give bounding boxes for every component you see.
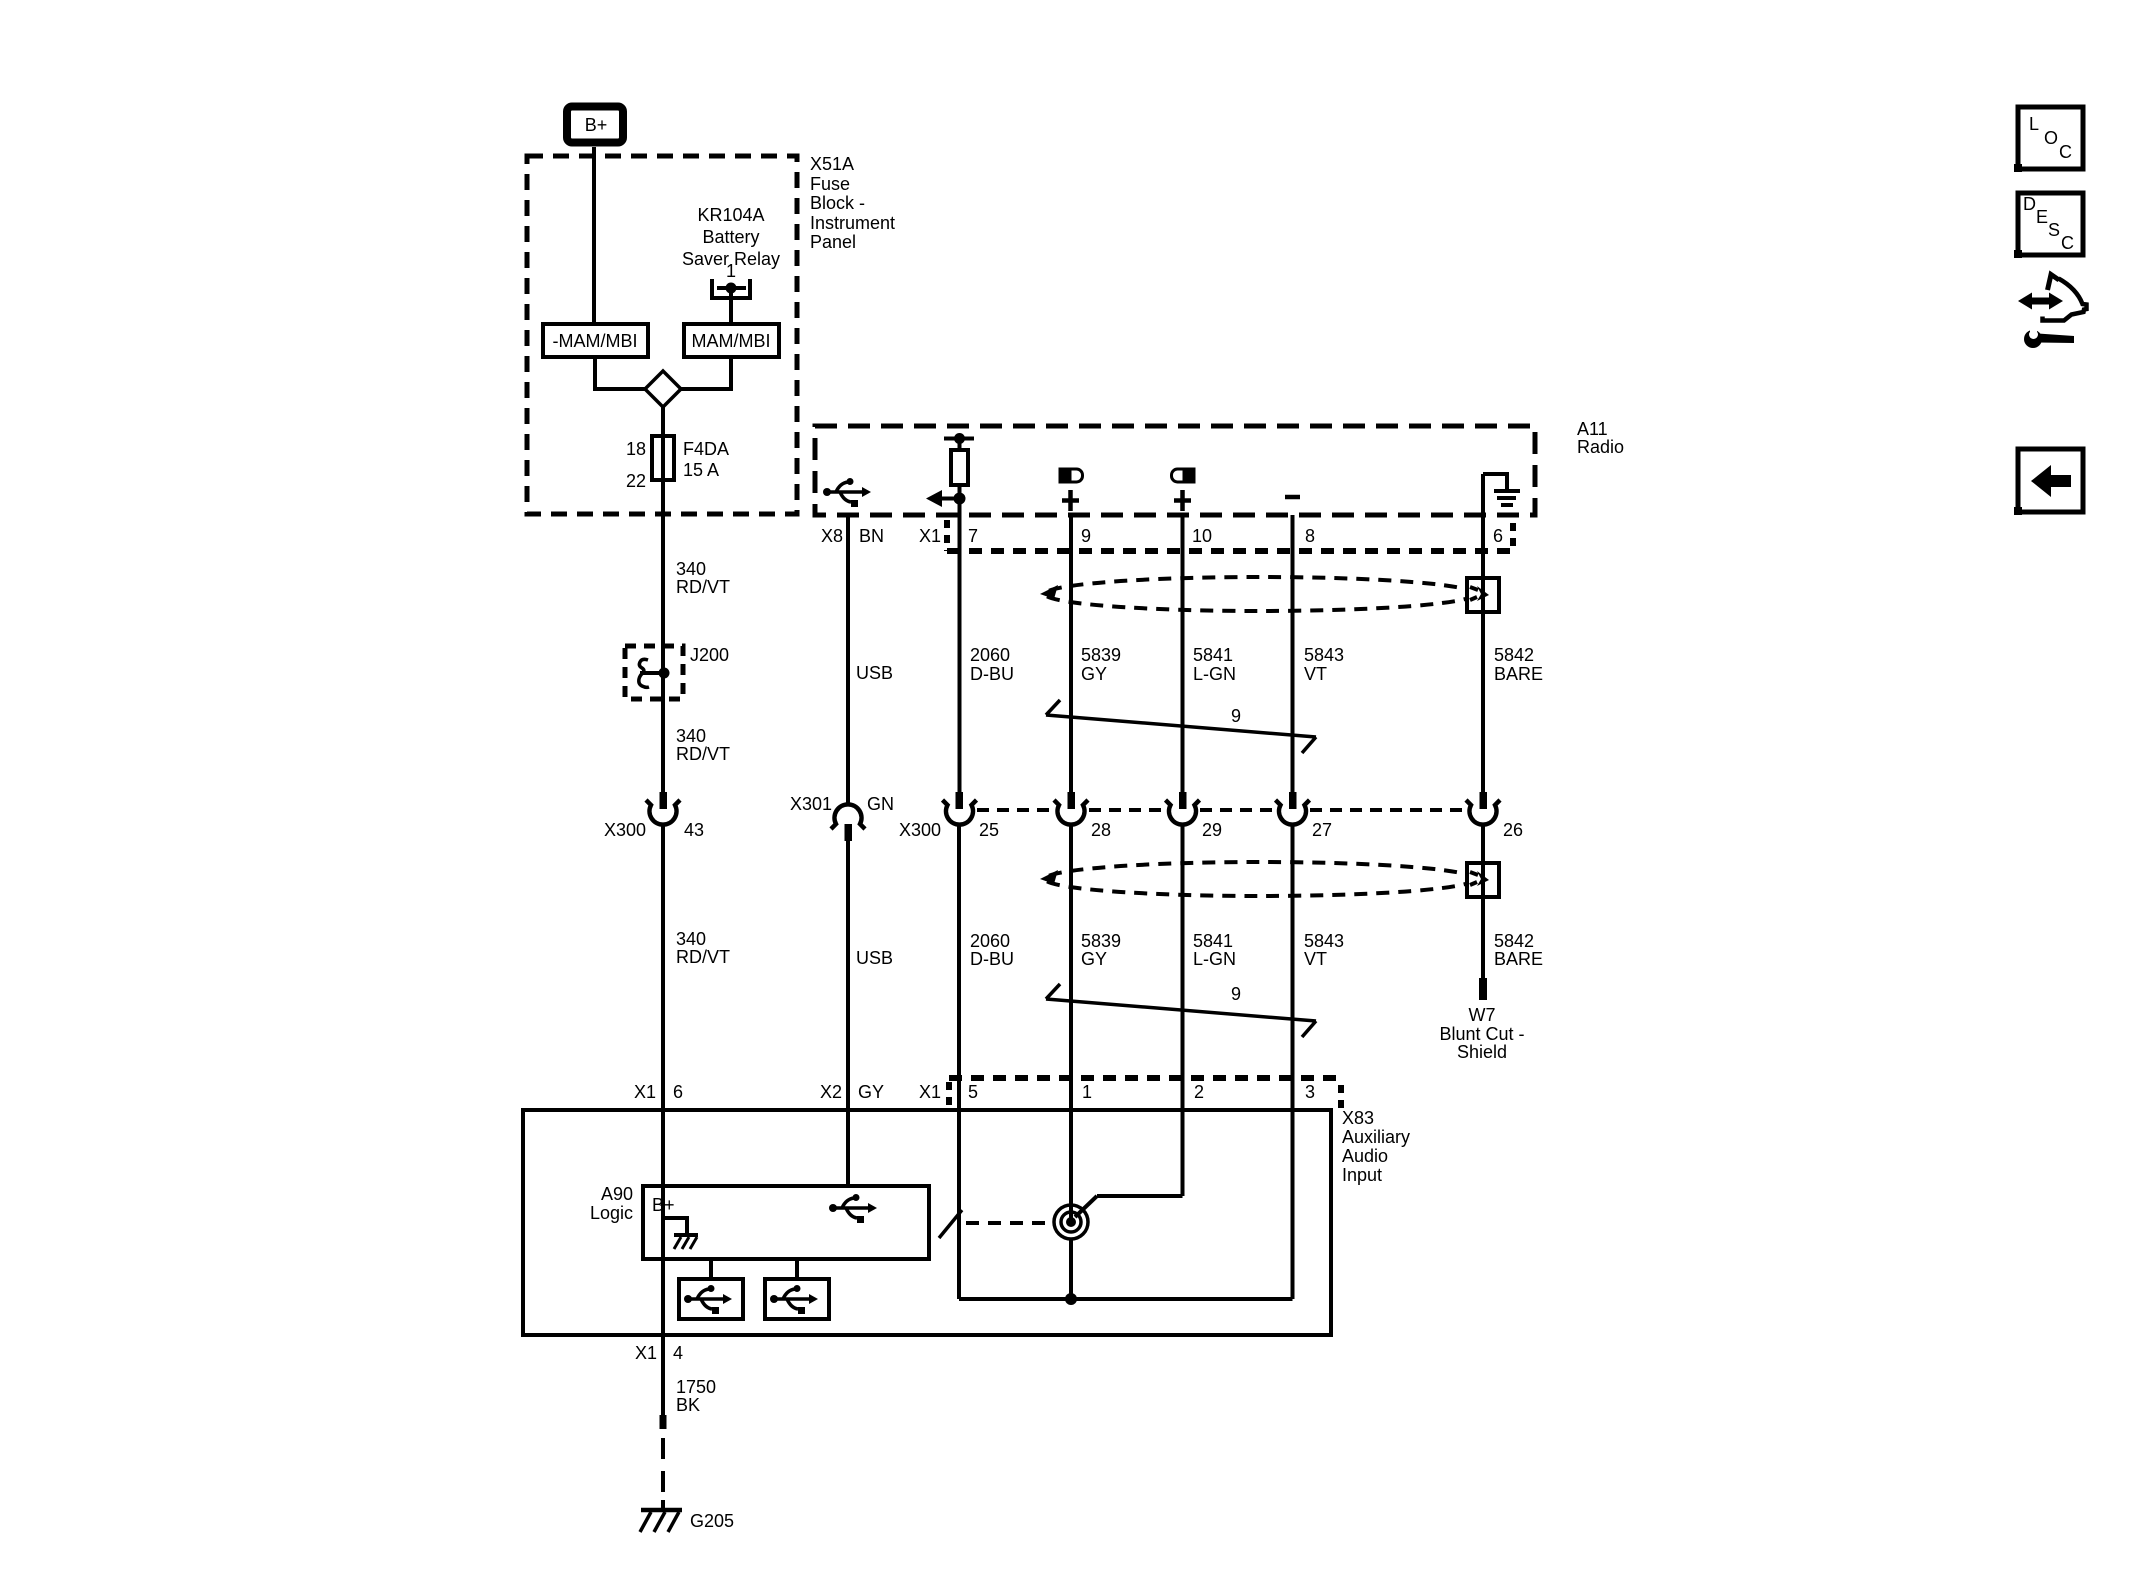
svg-text:GN: GN [867,794,894,814]
svg-text:X1: X1 [634,1082,656,1102]
svg-text:5841: 5841 [1193,645,1233,665]
svg-text:10: 10 [1192,526,1212,546]
svg-text:C: C [2061,233,2074,253]
twisted marker 9 run 1 [1046,700,1060,715]
radio USB symbol [823,478,871,507]
svg-text:X1: X1 [635,1343,657,1363]
USB port 2 box [765,1279,829,1319]
svg-text:Shield: Shield [1457,1042,1507,1062]
svg-text:D-BU: D-BU [970,949,1014,969]
A90 USB symbol [829,1194,877,1223]
svg-text:340: 340 [676,726,706,746]
svg-text:Audio: Audio [1342,1146,1388,1166]
svg-text:2060: 2060 [970,645,1010,665]
svg-text:BK: BK [676,1395,700,1415]
svg-text:A11: A11 [1577,419,1608,439]
svg-text:GY: GY [1081,949,1107,969]
radio pin 7 output arrow [926,490,942,507]
svg-text:BARE: BARE [1494,664,1543,684]
wire B+ down to -MAM/MBI [592,147,596,324]
svg-text:F4DA: F4DA [683,439,729,459]
bottom bus wire [959,1297,1293,1301]
svg-text:Block -: Block - [810,193,865,213]
svg-text:Instrument: Instrument [810,213,895,233]
svg-text:25: 25 [979,820,999,840]
radio X1 connector dotted bracket [944,520,950,551]
svg-text:18: 18 [626,439,646,459]
aux jack: dashed link to jack [966,1221,1053,1225]
X83 box [523,1110,1331,1335]
svg-text:3: 3 [1305,1082,1315,1102]
splice J200 [625,646,683,699]
svg-text:28: 28 [1091,820,1111,840]
radio pin 7 internal: T bar [944,437,974,441]
svg-text:1: 1 [726,261,736,281]
svg-text:Auxiliary: Auxiliary [1342,1127,1410,1147]
wire X301 to X83 [846,841,850,1186]
svg-text:27: 27 [1312,820,1332,840]
radio pin 10 plus [1174,498,1191,503]
svg-text:6: 6 [1493,526,1503,546]
relay KR104A pin 1 contact [712,279,750,298]
ground G205 [641,1508,682,1513]
svg-text:340: 340 [676,559,706,579]
wire A90 to USB port 2 [795,1259,799,1279]
wire 2060 D-BU run 2 [957,825,961,1299]
wire 5843 VT run 2 [1291,825,1295,1299]
svg-text:Blunt Cut -: Blunt Cut - [1439,1024,1524,1044]
svg-text:L: L [2029,114,2039,134]
svg-text:GY: GY [1081,664,1107,684]
svg-text:5843: 5843 [1304,931,1344,951]
svg-text:S: S [2048,220,2060,240]
svg-text:B+: B+ [652,1195,675,1215]
wire radio pin 6 down to X300 [1481,474,1485,792]
svg-text:X1: X1 [919,526,941,546]
svg-text:5843: 5843 [1304,645,1344,665]
terminal box MAM/MBI [684,324,779,357]
svg-text:Radio: Radio [1577,437,1624,457]
A90 internal ground [664,1218,687,1233]
wire X300 to X83 [661,825,665,1110]
inline connector X300 pin 43 [660,792,668,809]
svg-text:L-GN: L-GN [1193,949,1236,969]
svg-text:5842: 5842 [1494,931,1534,951]
svg-text:22: 22 [626,471,646,491]
svg-text:X83: X83 [1342,1108,1374,1128]
USB port 1 box [679,1279,743,1319]
svg-text:X300: X300 [604,820,646,840]
shield termination box run 1 [1467,578,1499,612]
svg-text:VT: VT [1304,949,1327,969]
svg-text:26: 26 [1503,820,1523,840]
svg-text:W7: W7 [1469,1005,1496,1025]
svg-text:5: 5 [968,1082,978,1102]
inline connector X300 pin 26 [1480,792,1488,809]
svg-text:29: 29 [1202,820,1222,840]
svg-text:D-BU: D-BU [970,664,1014,684]
svg-text:1: 1 [1082,1082,1092,1102]
wire 5841 L-GN run 2 [1181,825,1185,1196]
svg-text:6: 6 [673,1082,683,1102]
wire B+ through X83 [661,1110,665,1415]
svg-text:9: 9 [1231,984,1241,1004]
svg-text:E: E [2036,207,2048,227]
wire relay pin1 to MAM/MBI [729,288,733,324]
svg-text:G205: G205 [690,1511,734,1531]
svg-text:Battery: Battery [702,227,759,247]
blunt cut W7 tick [1479,978,1487,1000]
wire radio pin 10 down to X300 [1181,515,1185,792]
radio pin 9 plus [1062,498,1079,503]
svg-text:X8: X8 [821,526,843,546]
svg-text:9: 9 [1231,706,1241,726]
svg-text:USB: USB [856,663,893,683]
svg-text:5839: 5839 [1081,645,1121,665]
svg-text:BARE: BARE [1494,949,1543,969]
svg-text:Fuse: Fuse [810,174,850,194]
svg-text:KR104A: KR104A [697,205,764,225]
svg-text:X301: X301 [790,794,832,814]
svg-text:Logic: Logic [590,1203,633,1223]
power symbol B+ [567,107,623,143]
shield termination box run 2 [1467,863,1499,897]
inline connector X301 (GN) [831,804,865,829]
svg-text:A90: A90 [601,1184,633,1204]
wire MAM/MBI to diamond [681,357,731,389]
svg-text:7: 7 [968,526,978,546]
X83 X1 connector dotted bracket [949,1075,1341,1081]
wire radio pin 8 down to X300 [1291,515,1295,792]
svg-text:O: O [2044,128,2058,148]
svg-text:X51A: X51A [810,154,854,174]
termination tick below X1-4 [660,1415,667,1429]
svg-text:RD/VT: RD/VT [676,577,730,597]
terminal box -MAM/MBI [543,324,648,357]
svg-text:2: 2 [1194,1082,1204,1102]
wire -MAM/MBI to diamond [595,357,645,389]
radio A11 dashed box [815,426,1535,515]
svg-text:-MAM/MBI: -MAM/MBI [553,331,638,351]
svg-text:VT: VT [1304,664,1327,684]
fuse F4DA [652,436,674,480]
radio pin 10 battery icon [1172,469,1195,482]
svg-text:MAM/MBI: MAM/MBI [692,331,771,351]
svg-text:5839: 5839 [1081,931,1121,951]
wire 5842 BARE run 2 [1481,825,1485,978]
svg-text:RD/VT: RD/VT [676,947,730,967]
A90 logic box [643,1186,929,1259]
svg-text:USB: USB [856,948,893,968]
twisted marker 9 run 2 [1046,984,1060,999]
nav icon LOC [2018,107,2083,169]
svg-text:5841: 5841 [1193,931,1233,951]
inline connector X300 pin 25 [956,792,964,809]
wire diamond to fuse block edge [661,407,665,514]
svg-text:2060: 2060 [970,931,1010,951]
shield ellipse run 2 [1045,862,1475,896]
svg-text:8: 8 [1305,526,1315,546]
wire 340 RD/VT fuse to X300 [661,514,665,792]
svg-text:GY: GY [858,1082,884,1102]
wire A90 to USB port 1 [709,1259,713,1279]
radio pin 7 resistor [951,450,968,485]
svg-text:340: 340 [676,929,706,949]
svg-text:5842: 5842 [1494,645,1534,665]
nav icon DESC [2018,193,2083,255]
aux jack: breakout slash on pin 5 wire [939,1210,962,1238]
svg-text:BN: BN [859,526,884,546]
radio pin 9 battery icon [1060,469,1083,482]
svg-text:15 A: 15 A [683,460,719,480]
svg-text:9: 9 [1081,526,1091,546]
fuse block X51A dashed outline [527,156,797,514]
svg-text:X2: X2 [820,1082,842,1102]
wire radio X8 USB down to X301 [846,515,850,806]
radio pin 8 minus [1285,495,1300,500]
dashed wire to ground [661,1438,665,1459]
wire radio pin 7 down to X300 [958,439,962,793]
svg-text:X1: X1 [919,1082,941,1102]
nav icon back [2018,449,2083,512]
radio pin 6 chassis ground [1483,474,1507,490]
inline connector X300 pin 27 [1289,792,1297,809]
wire radio pin 9 down to X300 [1069,515,1073,792]
wire 5839 GY run 2 [1069,825,1073,1222]
svg-text:X300: X300 [899,820,941,840]
svg-text:Input: Input [1342,1165,1382,1185]
svg-text:B+: B+ [585,115,608,135]
aux jack switch lever [1075,1196,1097,1217]
inline connector X300 pin 29 [1179,792,1187,809]
svg-text:Panel: Panel [810,232,856,252]
svg-text:C: C [2059,142,2072,162]
wire jack to bottom bus [1069,1239,1073,1299]
splice diamond [645,371,681,407]
nav icon diagnostic arrows [2018,275,2087,321]
svg-text:L-GN: L-GN [1193,664,1236,684]
svg-text:RD/VT: RD/VT [676,744,730,764]
svg-text:43: 43 [684,820,704,840]
svg-text:J200: J200 [690,645,729,665]
svg-text:D: D [2023,194,2036,214]
svg-text:1750: 1750 [676,1377,716,1397]
nav icon wrench [2024,325,2074,348]
shield ellipse run 1 [1045,577,1475,611]
aux jack body [1054,1205,1088,1239]
X300 connector row dashed link [977,808,1053,812]
svg-text:4: 4 [673,1343,683,1363]
inline connector X300 pin 28 [1068,792,1076,809]
